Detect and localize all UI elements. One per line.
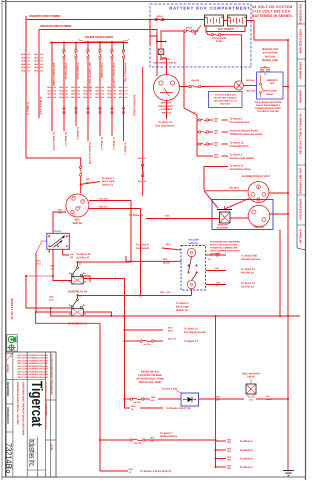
- wire: battery distribution column: [184, 31, 197, 156]
- svg-text:RED: RED: [34, 60, 39, 63]
- wire: left rail junctions: [26, 275, 53, 277]
- fuse 80A-#: [184, 30, 186, 32]
- svg-text:#02: #02: [65, 96, 68, 99]
- svg-text:1000-44B: 1000-44B: [299, 90, 303, 103]
- vacuum switch: upper port circle: [187, 248, 195, 256]
- key switch: ST terminal: [81, 200, 84, 203]
- svg-text:201A: 201A: [214, 156, 219, 159]
- svg-text:BATTERY CABLE: BATTERY CABLE: [132, 95, 135, 116]
- wire: valve to right rail: [256, 398, 288, 400]
- svg-text:RED: RED: [119, 96, 124, 99]
- svg-text:Industries Inc.: Industries Inc.: [27, 439, 37, 468]
- svg-text:RED: RED: [58, 209, 63, 212]
- breaker symbol on feeder 9: [122, 107, 124, 109]
- svg-text:PNK: PNK: [129, 468, 134, 471]
- wire: IGN feed down to long wire: [140, 209, 142, 296]
- run relay #1: coil box: [72, 309, 84, 317]
- shutdown relay: contact symbol: [260, 83, 262, 85]
- alternator: lower terminal: [257, 198, 260, 201]
- svg-text:(INSIDE CAB): (INSIDE CAB): [262, 59, 278, 62]
- battery disconnect relay: coil box: [158, 49, 164, 55]
- svg-text:HYDRAULIC FILL: HYDRAULIC FILL: [124, 63, 127, 84]
- svg-text:HYDRAULIC BALL VALVE B4: HYDRAULIC BALL VALVE B4: [299, 114, 303, 154]
- wire: distribution branch 2: [197, 131, 199, 133]
- title block: company name Industries Inc. (rotated): [27, 439, 37, 468]
- svg-text:RED: RED: [95, 96, 100, 99]
- wire: to-sheets row (y=408): [125, 399, 131, 408]
- svg-text:SONOMATIC ELECTRICAL, THF A000: SONOMATIC ELECTRICAL, THF A000: [16, 382, 19, 425]
- wire: feeder 3 (SWITCHED POWER): [51, 41, 53, 43]
- run relay #2: terminal 30 stub: [77, 262, 79, 267]
- battery disconnect switch: handle: [160, 88, 173, 96]
- fuse 30A-#02 on feeder 5: [75, 50, 77, 52]
- wire: battery cable drop from box: [142, 67, 144, 196]
- svg-text:RED: RED: [83, 86, 88, 89]
- svg-text:#10: #10: [53, 89, 56, 92]
- svg-text:2=12 VOLT 925 CCA: 2=12 VOLT 925 CCA: [252, 10, 291, 14]
- svg-text:RED: RED: [49, 296, 54, 299]
- svg-text:Tigercat: Tigercat: [28, 381, 46, 427]
- fuse 30A-#06 on feeder 9: [122, 50, 124, 52]
- svg-text:RUN RELAY #2: RUN RELAY #2: [68, 290, 88, 293]
- svg-text:RED: RED: [21, 66, 26, 69]
- svg-text:#05: #05: [101, 96, 104, 99]
- sheet border: right border line: [305, 0, 307, 480]
- svg-text:86: 86: [69, 313, 71, 316]
- svg-text:To Sheet 11: To Sheet 11: [64, 132, 67, 146]
- svg-text:10A-C08: 10A-C08: [191, 79, 200, 82]
- wire: alternator to right rail: [269, 192, 288, 194]
- svg-text:RED: RED: [21, 56, 26, 59]
- svg-text:RED: RED: [227, 456, 232, 459]
- svg-text:RED: RED: [227, 447, 232, 450]
- run relay #1: contact blade: [77, 299, 79, 301]
- wire: battery positive out to right rail: [247, 21, 289, 41]
- wire: fuse to key switch top: [80, 176, 82, 194]
- svg-text:11/22/2016: 11/22/2016: [6, 382, 10, 397]
- wire: key switch IGN out: [89, 208, 141, 210]
- svg-text:ACTIVATION: ACTIVATION: [263, 52, 278, 55]
- svg-text:Grid Master Relay: Grid Master Relay: [230, 168, 252, 171]
- svg-text:To Sheet 8: To Sheet 8: [240, 458, 253, 461]
- svg-text:To Sheets 4,13,15,16,20,21: To Sheets 4,13,15,16,20,21: [140, 470, 172, 473]
- wire: feeder 2 (To Sheets 3,4,5): [38, 30, 40, 119]
- title block: small red stamp upper-left triangle: [6, 354, 13, 362]
- svg-text:To Sheet 8: To Sheet 8: [240, 449, 253, 452]
- svg-text:RED: RED: [83, 96, 88, 99]
- svg-text:Key Signal Circuit: Key Signal Circuit: [184, 331, 206, 334]
- wire: branch to To Sheet 4: [216, 440, 227, 442]
- key switch: BAT terminal: [72, 197, 75, 200]
- svg-text:A-PRELIM: A-PRELIM: [299, 229, 303, 244]
- svg-text:RED #07: RED #07: [99, 205, 108, 208]
- wire: unswitched power feed 2 (to disconnect switch): [39, 30, 157, 77]
- svg-text:87: 87: [83, 272, 85, 275]
- svg-text:To Sheet 2,3,19: To Sheet 2,3,19: [52, 132, 55, 151]
- svg-text:RLY: RLY: [266, 395, 271, 398]
- svg-text:RED: RED: [21, 53, 26, 56]
- wire: to-sheet-17 branch: [123, 340, 125, 342]
- wire: button to relay box: [264, 73, 266, 76]
- svg-text:VALVE: VALVE: [247, 376, 255, 379]
- svg-text:#03: #03: [77, 93, 80, 96]
- sheet border: bottom border line: [2, 476, 306, 478]
- svg-text:K12 Pin 37: K12 Pin 37: [77, 257, 90, 260]
- svg-text:VAN: VAN: [216, 281, 221, 284]
- wire: starter to right rail: [270, 213, 288, 215]
- wire: vacuum switch common out: [206, 270, 226, 272]
- svg-text:87: 87: [83, 304, 85, 307]
- svg-text:RED: RED: [95, 93, 100, 96]
- svg-text:RED: RED: [107, 93, 112, 96]
- svg-text:P/S SYSTEM SHUTDOWN: P/S SYSTEM SHUTDOWN: [255, 101, 282, 104]
- svg-text:SWITCH: SWITCH: [72, 222, 82, 225]
- wire: feeder 9 (HYDRAULIC FILL): [122, 41, 124, 43]
- svg-text:40A: 40A: [167, 291, 171, 294]
- run relay #1: terminal 30 stub: [77, 294, 79, 299]
- svg-text:RED: RED: [86, 178, 91, 181]
- svg-text:RED: RED: [131, 405, 136, 408]
- svg-text:RED: RED: [34, 53, 39, 56]
- svg-text:Q: Q: [5, 470, 11, 474]
- svg-text:RED: RED: [138, 157, 143, 160]
- svg-text:REV Q UPD HARNESS P/N 4440: REV Q UPD HARNESS P/N 4440: [18, 373, 49, 376]
- svg-text:22B: 22B: [227, 459, 231, 462]
- wire: branch to To Sheet 8: [214, 457, 216, 459]
- svg-text:REV Q UPD HARNESS P/N 4440: REV Q UPD HARNESS P/N 4440: [18, 368, 49, 371]
- svg-text:SYSTEM ACTIVATED: SYSTEM ACTIVATED: [257, 110, 279, 113]
- svg-text:30: 30: [79, 262, 81, 265]
- approval green icon: circle with flag: [8, 336, 14, 342]
- fuse 40A-#01 on feeder 4: [63, 50, 65, 52]
- svg-text:To Sheet 4: To Sheet 4: [240, 440, 253, 443]
- svg-text:RED: RED: [36, 260, 41, 263]
- wire: bottom rail (y=471): [100, 470, 128, 472]
- svg-text:UNSWITCHED POWER: UNSWITCHED POWER: [40, 24, 72, 28]
- svg-text:#07A: #07A: [49, 299, 54, 302]
- title block: row line in left col (drawn-by cell): [6, 403, 13, 405]
- svg-text:SWITCHED POWER: SWITCHED POWER: [52, 63, 55, 87]
- alternator: body circle: [248, 182, 269, 203]
- svg-text:RED: RED: [163, 258, 168, 261]
- title block: row line in left col (number cell): [6, 431, 13, 433]
- revision table: row divider 7: [297, 224, 306, 226]
- fuse on distribution branch 3: [199, 143, 201, 145]
- wire: feeder 4 (START RELAY): [63, 41, 65, 43]
- svg-text:10A-C03: 10A-C03: [133, 442, 142, 445]
- battery disconnect switch: terminal circles: [159, 81, 163, 85]
- svg-text:To Sheet 3: To Sheet 3: [100, 137, 103, 150]
- svg-text:HAS A JUMPER FROM PIN 6: HAS A JUMPER FROM PIN 6: [210, 250, 240, 253]
- title block: row line (notes area bottom): [13, 379, 46, 381]
- svg-text:To Sheet 3: To Sheet 3: [112, 137, 115, 150]
- svg-text:TO PIN 5.: TO PIN 5.: [210, 253, 220, 256]
- svg-text:RED: RED: [59, 89, 64, 92]
- note: To Sheet 3 Work Light Switch #1: [81, 182, 100, 185]
- note box: for machines w/o P/S system: [209, 92, 243, 108]
- svg-text:BUTTON: BUTTON: [265, 55, 276, 58]
- svg-text:THE INITIAL CONNECTOR: THE INITIAL CONNECTOR: [210, 247, 238, 250]
- wire: distribution branch 1: [197, 119, 199, 121]
- svg-text:Anode (+) Side: Anode (+) Side: [162, 387, 178, 390]
- svg-text:#05: #05: [101, 93, 104, 96]
- svg-text:#03: #03: [77, 96, 80, 99]
- run relay #2: contact blade: [77, 267, 79, 269]
- wire: inline main fuse bus: [50, 42, 128, 44]
- ANDERCO F2S shutdown relay: enclosure: [257, 72, 284, 99]
- svg-text:RED: RED: [71, 96, 76, 99]
- svg-text:80A-#: 80A-#: [186, 26, 193, 29]
- svg-text:DISCONNECT RELAY: DISCONNECT RELAY: [153, 61, 177, 64]
- wire: AC/heat relay row (y=440): [99, 439, 101, 441]
- wire: distribution branch 4: [197, 155, 199, 157]
- svg-text:50A-#: 50A-#: [157, 15, 164, 18]
- svg-text:RED: RED: [214, 129, 219, 132]
- svg-text:IF MACHINE NOT EQUIPPED: IF MACHINE NOT EQUIPPED: [210, 241, 240, 244]
- svg-text:#02: #02: [65, 89, 68, 92]
- fuse 10A-#08 key switch feed: [80, 166, 82, 168]
- starter solenoid: stem and bar: [224, 206, 226, 210]
- wire: grid master relay feed from alternator: [204, 167, 228, 191]
- svg-text:RED: RED: [150, 436, 155, 439]
- wire: key signal stub (y=330): [125, 329, 164, 331]
- svg-text:K12 Pin 30: K12 Pin 30: [241, 271, 254, 274]
- wire: P/S fuse drop to bulkhead connector: [221, 35, 242, 81]
- wire: acc drop rail: [35, 253, 37, 312]
- svg-text:RED: RED: [214, 117, 219, 120]
- svg-text:24 VOLT/COMPONENT PRELIMINARY: 24 VOLT/COMPONENT PRELIMINARY: [50, 354, 53, 396]
- svg-text:10009 BHD4: 10009 BHD4: [299, 62, 303, 79]
- key switch: ACC terminal: [71, 210, 74, 213]
- wire: relay 2 coil right leg to drop: [83, 278, 124, 280]
- svg-text:RED: RED: [151, 396, 156, 399]
- title block: bottom small cell line (logo col): [27, 469, 45, 471]
- svg-text:(CAN) WD4 RTC: (CAN) WD4 RTC: [230, 145, 249, 148]
- svg-text:20B: 20B: [227, 441, 231, 444]
- battery disconnect relay: feed corner from unswitched power: [149, 20, 151, 47]
- wire: distribution branch 3: [197, 143, 199, 145]
- svg-text:RED: RED: [160, 291, 165, 294]
- sheet border: inner left border line: [5, 0, 7, 477]
- svg-text:5A-C06: 5A-C06: [133, 401, 141, 404]
- svg-text:Service Light Switch: Service Light Switch: [230, 157, 255, 160]
- svg-text:A/V: A/V: [208, 258, 212, 261]
- svg-text:To Sheets 4,14,17,18: To Sheets 4,14,17,18: [166, 407, 191, 410]
- breaker symbol on feeder 5: [75, 107, 77, 109]
- svg-text:F2S: F2S: [270, 82, 275, 85]
- svg-text:#06: #06: [113, 96, 116, 99]
- svg-text:870E/870D/L855E TIGERCAT MACH.: 870E/870D/L855E TIGERCAT MACH. RED WIRE: [22, 382, 25, 436]
- wire: grid master drop diagonal into solenoid: [204, 191, 218, 208]
- battery disconnect relay: solenoid bar: [156, 41, 167, 43]
- svg-text:#06: #06: [113, 86, 116, 89]
- svg-text:1: 1: [68, 235, 69, 238]
- svg-text:REV Q UPD HARNESS P/N 4440: REV Q UPD HARNESS P/N 4440: [18, 365, 49, 368]
- svg-text:RED: RED: [47, 93, 52, 96]
- svg-text:BATTERY BOX COMPARTMENT: BATTERY BOX COMPARTMENT: [169, 5, 250, 10]
- svg-text:RED 201A.: RED 201A.: [220, 103, 231, 106]
- breaker symbol on feeder 4: [63, 107, 65, 109]
- svg-text:20A: 20A: [150, 439, 154, 442]
- brace under inline main fuses label: [78, 39, 129, 41]
- revision table: row divider 3: [297, 85, 306, 87]
- breaker symbol on feeder 8: [111, 107, 113, 109]
- svg-text:NOTES: NOTES: [6, 364, 9, 373]
- svg-text:UPDATED FIX4: UPDATED FIX4: [299, 199, 303, 220]
- svg-text:21B: 21B: [227, 450, 231, 453]
- fuse: P/S SYSTEM FUSE: [211, 34, 213, 36]
- title block: column line 5: [49, 352, 51, 477]
- fuse 50A-#09 battery feed: [155, 18, 157, 20]
- wire: battery loop to p/s system fuse: [206, 26, 245, 32]
- svg-text:#10: #10: [53, 86, 56, 89]
- svg-text:RED: RED: [214, 153, 219, 156]
- breaker symbol on feeder 7: [99, 107, 101, 109]
- title block: row line right cols: [46, 399, 57, 401]
- wire: fan circuit feed along y=261.4: [126, 256, 181, 261]
- svg-text:RED: RED: [21, 63, 26, 66]
- wire: starter box drop to main rail: [279, 230, 281, 317]
- fuse symbol on battery cable: [142, 164, 144, 166]
- svg-text:P/S SYSTEM Q: P/S SYSTEM Q: [299, 4, 303, 25]
- svg-text:[M]: [M]: [250, 399, 253, 402]
- wire: branch to To Sheet 8: [214, 449, 216, 451]
- svg-text:RED: RED: [47, 86, 52, 89]
- svg-text:To Sheet 17: To Sheet 17: [184, 340, 198, 343]
- svg-text:RED: RED: [34, 70, 39, 73]
- wire: ST feed down to relay 2: [78, 201, 132, 263]
- svg-text:REV Q UPD HARNESS P/N 4440: REV Q UPD HARNESS P/N 4440: [18, 359, 49, 362]
- svg-text:Q00B: Q00B: [50, 444, 53, 450]
- svg-text:To Sheet 9: To Sheet 9: [240, 466, 253, 469]
- svg-text:50A: 50A: [151, 399, 155, 402]
- svg-text:MANUAL P2S: MANUAL P2S: [262, 48, 279, 51]
- svg-text:#10: #10: [53, 96, 56, 99]
- wire: relay 1 coil right to long bus: [83, 312, 111, 316]
- wire: switch to key disconnect note: [166, 101, 168, 120]
- ground symbol at right rail: [283, 470, 294, 472]
- vacuum switch: dashed blue box: [181, 246, 206, 291]
- wire: battery positive feed inside box: [150, 19, 205, 21]
- svg-text:RED 29V DIRECTLY TO: RED 29V DIRECTLY TO: [214, 100, 237, 103]
- svg-text:ABOVE DEF TANK: ABOVE DEF TANK: [139, 381, 162, 384]
- battery disconnect relay: stem: [160, 42, 162, 49]
- svg-text:RED: RED: [214, 141, 219, 144]
- svg-text:RED: RED: [47, 89, 52, 92]
- svg-text:RED: RED: [83, 93, 88, 96]
- svg-text:#06: #06: [113, 93, 116, 96]
- svg-text:#02: #02: [65, 93, 68, 96]
- svg-text:POWER ROOF: POWER ROOF: [76, 63, 79, 81]
- svg-text:SHUTDOWN: SHUTDOWN: [264, 90, 277, 93]
- svg-text:RED: RED: [21, 70, 26, 73]
- fuse 30A-#04 on feeder 7: [99, 50, 101, 52]
- svg-text:#10: #10: [53, 93, 56, 96]
- svg-text:REV Q UPD HARNESS P/N 4440: REV Q UPD HARNESS P/N 4440: [18, 354, 49, 357]
- svg-text:RED: RED: [71, 89, 76, 92]
- wire: branch to To Sheet 9: [214, 466, 216, 468]
- svg-text:#03: #03: [77, 86, 80, 89]
- fuse 5A-C06: [130, 398, 132, 400]
- svg-text:RED: RED: [59, 93, 64, 96]
- wire: long wire into relay 1: [78, 295, 192, 297]
- svg-text:RED: RED: [119, 93, 124, 96]
- wire: relay1 coil 85 leg to left rail: [26, 276, 72, 308]
- fuse on distribution branch 1: [199, 119, 201, 121]
- svg-text:RED: RED: [166, 243, 171, 246]
- wire: main rail A (y=316): [51, 308, 300, 316]
- svg-text:RED: RED: [216, 396, 221, 399]
- starter enclosure: blue box: [212, 200, 273, 230]
- svg-text:To Sheet 4: To Sheet 4: [76, 127, 79, 140]
- wire: series link between batteries: [224, 20, 228, 22]
- wire: drop at x=218: [215, 316, 217, 467]
- wire: fuel shutoff row: [123, 398, 125, 400]
- title block: company name Tigercat (rotated): [28, 381, 46, 427]
- svg-text:BATTERIES: BATTERIES: [218, 27, 234, 31]
- starter motor: body circle: [248, 205, 270, 227]
- svg-text:ANDERCO: ANDERCO: [266, 79, 278, 82]
- svg-text:RED: RED: [119, 89, 124, 92]
- svg-text:#02: #02: [65, 86, 68, 89]
- title block: small rev box at bottom: [6, 467, 13, 469]
- svg-text:SHEET 1 OF 23: SHEET 1 OF 23: [10, 299, 14, 320]
- battery disconnect blade contact near battery B1: [195, 26, 201, 34]
- vacuum switch: lower port circle: [187, 280, 195, 288]
- svg-text:A000-BHD: A000-BHD: [44, 404, 47, 416]
- wire: vacuum switch NC out: [206, 284, 226, 286]
- wire: relay 2 coil left leg: [53, 249, 72, 280]
- svg-text:START RELAY: START RELAY: [64, 63, 67, 80]
- svg-text:RED: RED: [59, 86, 64, 89]
- wire: diode to fuel valve: [199, 398, 245, 400]
- connector TO-DC7: blue box outline: [47, 233, 70, 249]
- svg-text:P/S SYSTEM, CONNECT: P/S SYSTEM, CONNECT: [214, 96, 239, 99]
- svg-text:RED: RED: [168, 327, 173, 330]
- battery disconnect lockable switch: body circle: [154, 75, 180, 101]
- svg-text:RELAY DISCONNECTS: RELAY DISCONNECTS: [256, 104, 280, 107]
- svg-text:23B: 23B: [227, 467, 231, 470]
- wire: connector to shutdown relay box: [243, 85, 256, 87]
- svg-text:REV Q UPD HARNESS P/N 4440: REV Q UPD HARNESS P/N 4440: [18, 357, 49, 360]
- wire: key switch ACC to connector: [53, 212, 66, 233]
- svg-text:RED: RED: [47, 96, 52, 99]
- svg-text:RED: RED: [227, 438, 232, 441]
- svg-text:RED: RED: [107, 89, 112, 92]
- wire: alternator B+ stub left: [204, 190, 247, 192]
- svg-text:Switch #1: Switch #1: [102, 184, 114, 187]
- title block: row line right cols 2: [46, 439, 57, 441]
- svg-text:20A4: 20A4: [36, 263, 42, 266]
- svg-text:TNK: TNK: [215, 267, 220, 270]
- wire: unswitched feed into relay: [150, 20, 157, 42]
- fuse 10A-C03: [130, 439, 132, 441]
- fuse 30A-#03 on feeder 6: [87, 50, 89, 52]
- svg-text:Vacuum System: Vacuum System: [241, 258, 261, 261]
- svg-text:WITH A VACUUM SYSTEM: WITH A VACUUM SYSTEM: [210, 244, 237, 247]
- diode AM-301: blue box: [181, 393, 199, 406]
- svg-text:#07: #07: [124, 89, 127, 92]
- svg-text:CAB WORK LIGHTS: CAB WORK LIGHTS: [112, 63, 115, 87]
- wire: cab power to key switch: [26, 16, 81, 166]
- svg-text:To Sheet 2,4,6,7,20: To Sheet 2,4,6,7,20: [88, 142, 91, 165]
- svg-text:1/40.5: 1/40.5: [266, 398, 273, 401]
- svg-text:1: 1: [48, 234, 49, 237]
- wire: relay1 coil 86 leg to bottom bus: [36, 312, 100, 323]
- svg-text:Pre-Heat System: Pre-Heat System: [230, 121, 251, 124]
- manual p/s push button symbol: [261, 69, 264, 72]
- title block: column line 3 (bottom only): [36, 437, 38, 477]
